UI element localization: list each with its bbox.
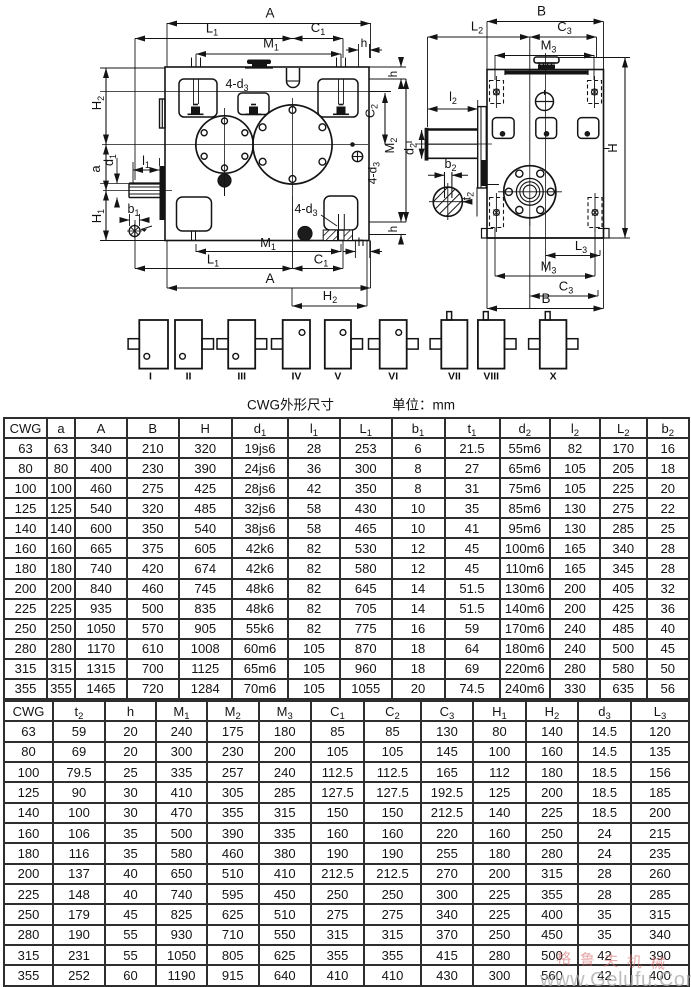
svg-text:A: A — [265, 271, 274, 286]
left view worm shaft centerline — [100, 91, 385, 93]
right view input shaft end face (thick) — [425, 128, 429, 161]
left view bottom-middle cover — [177, 197, 212, 231]
svg-text:d1: d1 — [102, 154, 118, 166]
right view output flange rings — [504, 166, 556, 218]
left view bottom bolt lines (right) — [338, 214, 340, 241]
dim H1 left (axis to bottom) — [105, 191, 107, 241]
left view cover bolt nut (middle) — [249, 107, 258, 114]
right view gearbox body — [487, 70, 604, 239]
svg-text:VI: VI — [388, 371, 398, 383]
right view boss ledge line — [481, 184, 499, 186]
left view large flange vertical centerline — [292, 98, 294, 196]
svg-text:H1: H1 — [89, 209, 106, 223]
mounting arrangement icon I — [139, 320, 168, 369]
mounting arrangement icon IV — [283, 320, 310, 369]
dim d1 (shaft dia) — [116, 158, 118, 184]
right view top-left bolt (dashed) — [490, 81, 504, 104]
svg-text:B: B — [541, 291, 550, 306]
dim h bottom — [354, 241, 356, 259]
dim C3 bottom — [530, 295, 598, 297]
left view bolt hidden lines through covers — [193, 79, 195, 104]
left view dot on centerline — [351, 143, 355, 147]
left view bottom-right cover — [324, 196, 358, 230]
left view lifting hook (U shape) — [287, 68, 300, 88]
left view gearbox body — [165, 67, 369, 241]
svg-text:C1: C1 — [311, 20, 325, 37]
left view upper bearing boss (left edge) — [160, 99, 166, 128]
mounting arrangement icon II — [175, 320, 202, 369]
dim l1 (shaft length) — [132, 162, 134, 183]
svg-text:M3: M3 — [541, 259, 557, 276]
dim M2 right (rotated) — [405, 79, 407, 222]
svg-text:l1: l1 — [142, 154, 150, 170]
svg-text:CWG外形尺寸: CWG外形尺寸 — [247, 398, 334, 413]
svg-text:单位：mm: 单位：mm — [392, 398, 455, 413]
left view output shaft flange plate — [160, 166, 166, 220]
left view large bearing flange circle — [253, 105, 332, 184]
mounting arrangement icon X — [540, 320, 567, 369]
svg-text:h: h — [388, 226, 400, 232]
svg-text:M3: M3 — [541, 38, 557, 55]
right view output flange bolt holes — [547, 188, 554, 195]
right view cover dots — [500, 132, 505, 137]
left view output shaft centerline — [103, 190, 172, 192]
right side ledge lines bottom — [370, 221, 407, 223]
svg-text:l2: l2 — [449, 90, 457, 106]
left view hatched foot section right — [344, 230, 353, 241]
svg-text:B: B — [537, 4, 546, 19]
dim l2 left — [428, 108, 478, 110]
svg-text:d2: d2 — [403, 143, 419, 155]
left view bolt ticks above top edge (right) — [336, 58, 338, 68]
left view drain plug below small flange — [218, 174, 231, 187]
right view breather circle — [536, 93, 554, 111]
dim B top — [487, 21, 604, 23]
mounting arrangement icon III — [228, 320, 255, 369]
right view top cover plate (dark band) — [505, 71, 588, 75]
dim B bottom — [487, 308, 604, 310]
dim C3 top — [530, 36, 597, 38]
right view shaft end section circle (hatched) — [433, 187, 462, 216]
right view input shaft cylinder — [426, 128, 478, 130]
svg-text:III: III — [237, 371, 246, 383]
dim h top right — [358, 44, 360, 67]
dim L3 bottom — [546, 255, 601, 257]
svg-text:V: V — [334, 371, 341, 383]
extension lines bottom — [134, 220, 136, 269]
svg-text:C2: C2 — [364, 104, 380, 118]
svg-text:H2: H2 — [323, 288, 337, 305]
dim L1 top — [135, 38, 293, 40]
dim C2 right (rotated) — [384, 93, 386, 145]
svg-text:C1: C1 — [314, 252, 328, 269]
left view bolt ticks above top edge (left) — [191, 58, 193, 68]
dim a left (axis to axis) — [105, 145, 107, 191]
svg-text:4-d3: 4-d3 — [225, 77, 248, 93]
svg-text:h: h — [358, 235, 365, 249]
svg-text:L3: L3 — [575, 238, 587, 255]
svg-text:IV: IV — [291, 371, 301, 383]
right side ledge lines top — [370, 66, 407, 68]
svg-text:b2: b2 — [445, 157, 457, 173]
watermark gelufu.com — [540, 969, 691, 987]
left view hatched foot section left — [323, 230, 337, 241]
mounting arrangement icon VI — [380, 320, 407, 369]
left view cover bolt nut (left) — [191, 107, 200, 114]
right view bearing flange strip — [478, 107, 487, 188]
right view left cover square — [492, 118, 514, 139]
svg-text:M1: M1 — [260, 235, 276, 252]
svg-text:A: A — [265, 6, 274, 21]
svg-text:X: X — [550, 371, 557, 383]
svg-text:L1: L1 — [207, 252, 219, 269]
dim t2 (rotated) — [476, 187, 478, 217]
left view oil fill cap on top — [247, 60, 271, 65]
left view drain plug bottom — [298, 227, 312, 241]
mounting arrangement icon VIII — [478, 320, 505, 369]
dim A bottom — [167, 287, 371, 289]
dim M3 top — [495, 55, 594, 57]
dim M1 bottom — [196, 251, 341, 253]
right view input shaft centerline — [415, 143, 492, 145]
left view small flange bolt holes — [222, 118, 228, 124]
left view cover bolt nut (right) — [337, 107, 346, 114]
watermark chinese characters — [556, 947, 691, 975]
left view bottom-left anchor bolt — [129, 226, 140, 237]
dim M3 bottom — [495, 275, 595, 277]
dim d2 left of shaft — [421, 130, 423, 159]
left view output axis centerline — [102, 144, 368, 146]
svg-text:h: h — [388, 71, 400, 77]
right view bottom-right bolt (dashed) — [588, 198, 602, 228]
right view bottom edge and feet — [487, 237, 604, 239]
right view bottom-left bolt (dashed) — [490, 198, 504, 228]
dim H right (rotated) — [558, 57, 630, 59]
svg-text:4-d3: 4-d3 — [294, 202, 317, 218]
svg-text:H2: H2 — [89, 96, 106, 110]
dim C1 bottom — [293, 268, 344, 270]
left view large flange bolt holes — [289, 107, 296, 114]
dim M1 top — [196, 53, 341, 55]
left view top-middle cover — [238, 93, 269, 115]
left view small bearing flange circle — [196, 116, 253, 173]
svg-text:L2: L2 — [471, 19, 483, 36]
left view top-right inspection cover — [318, 79, 358, 117]
right view H pointer tick — [604, 148, 610, 150]
right view top-right bolt (dashed) — [588, 81, 602, 104]
left view small flange vertical centerline — [224, 108, 226, 190]
svg-text:C3: C3 — [559, 279, 573, 296]
svg-text:H: H — [605, 143, 620, 152]
svg-text:II: II — [186, 371, 192, 383]
extension line body top left — [100, 67, 165, 69]
dim H2 bottom — [292, 305, 367, 307]
right view oil fill cap — [534, 57, 559, 63]
dim C1 top — [293, 38, 344, 40]
extension lines top — [166, 23, 168, 67]
right view main vertical centerline — [545, 53, 547, 272]
dim L1 bottom — [135, 268, 293, 270]
right view right cover square — [578, 118, 599, 139]
ext lines right view top — [486, 22, 488, 70]
arrow to anchor bolt — [141, 226, 152, 230]
left view oil level gauge — [352, 151, 362, 161]
dim L2 top — [428, 36, 530, 38]
svg-text:a: a — [88, 165, 103, 173]
right view middle cover square — [536, 118, 557, 139]
svg-text:VII: VII — [448, 371, 461, 383]
left view bolt lines below bottom-middle cover — [191, 231, 193, 241]
dim H2 left (top to axis) — [105, 68, 107, 145]
left view top-left inspection cover — [179, 79, 217, 117]
dim A top — [167, 23, 371, 25]
svg-text:4-d3: 4-d3 — [366, 162, 382, 184]
svg-text:VIII: VIII — [483, 371, 499, 383]
mounting arrangement icon VII — [441, 320, 467, 369]
left view output shaft — [129, 182, 160, 184]
svg-text:h: h — [361, 36, 368, 50]
mounting arrangement icon V — [325, 320, 351, 369]
right view output flange centerlines — [498, 191, 562, 193]
extension line bottom left — [100, 240, 165, 242]
svg-text:I: I — [149, 371, 152, 383]
ext line right at y91.5 — [370, 91, 392, 93]
ext lines right view bottom — [529, 217, 531, 309]
